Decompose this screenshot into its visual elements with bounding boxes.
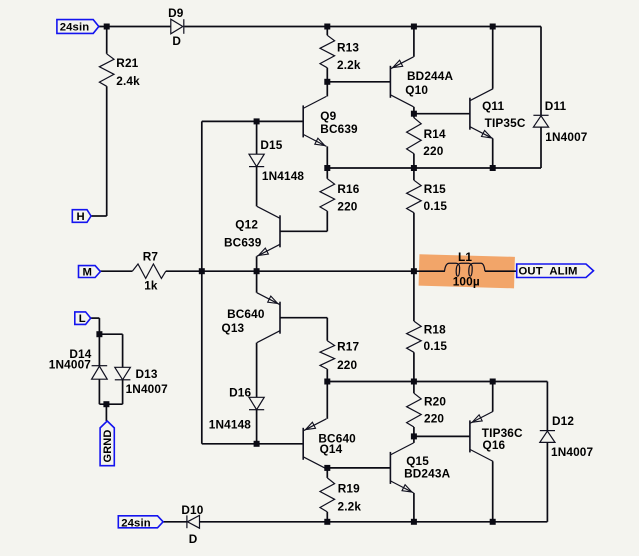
svg-text:1N4148: 1N4148 (209, 418, 252, 432)
svg-text:220: 220 (337, 358, 357, 372)
svg-text:2.2k: 2.2k (338, 500, 362, 514)
svg-text:R7: R7 (143, 250, 159, 264)
svg-text:D15: D15 (260, 138, 282, 152)
svg-text:R19: R19 (338, 481, 360, 495)
svg-text:BC639: BC639 (320, 122, 358, 136)
svg-text:1N4148: 1N4148 (262, 169, 305, 183)
svg-text:220: 220 (337, 199, 357, 213)
svg-text:D10: D10 (181, 503, 203, 517)
svg-text:R14: R14 (424, 127, 446, 141)
svg-text:1k: 1k (144, 279, 158, 293)
svg-text:M: M (83, 267, 93, 279)
svg-text:BC640: BC640 (227, 307, 265, 321)
svg-text:R15: R15 (424, 182, 446, 196)
svg-text:0.15: 0.15 (424, 339, 448, 353)
svg-text:Q9: Q9 (320, 109, 336, 123)
svg-text:TIP35C: TIP35C (485, 116, 526, 130)
svg-text:D: D (189, 532, 198, 546)
svg-text:24sin: 24sin (121, 517, 151, 529)
svg-text:100µ: 100µ (453, 275, 480, 289)
svg-text:220: 220 (424, 412, 444, 426)
svg-text:H: H (77, 211, 85, 223)
svg-text:24sin: 24sin (60, 21, 90, 33)
svg-text:BD243A: BD243A (404, 467, 450, 481)
svg-text:2.4k: 2.4k (116, 74, 140, 88)
svg-text:R18: R18 (424, 323, 446, 337)
svg-text:R13: R13 (337, 41, 359, 55)
svg-text:R16: R16 (337, 182, 359, 196)
svg-text:GRND: GRND (102, 430, 114, 463)
svg-text:OUT ALIM: OUT ALIM (519, 266, 578, 278)
svg-text:Q11: Q11 (482, 99, 504, 113)
svg-text:1N4007: 1N4007 (49, 358, 92, 372)
svg-text:D11: D11 (545, 99, 567, 113)
svg-text:D: D (172, 34, 181, 48)
svg-text:Q12: Q12 (235, 218, 258, 232)
svg-text:BC639: BC639 (224, 236, 262, 250)
svg-text:Q10: Q10 (405, 83, 428, 97)
svg-text:BD244A: BD244A (407, 69, 453, 83)
svg-text:0.15: 0.15 (424, 199, 448, 213)
svg-text:1N4007: 1N4007 (126, 382, 169, 396)
svg-text:D13: D13 (136, 367, 158, 381)
svg-text:1N4007: 1N4007 (551, 445, 594, 459)
svg-text:1N4007: 1N4007 (545, 130, 588, 144)
svg-text:Q16: Q16 (483, 438, 506, 452)
svg-text:220: 220 (423, 144, 443, 158)
svg-text:L: L (79, 313, 86, 325)
svg-text:R20: R20 (424, 395, 446, 409)
svg-text:D16: D16 (229, 386, 251, 400)
svg-text:2.2k: 2.2k (337, 58, 361, 72)
svg-text:R21: R21 (116, 56, 138, 70)
svg-text:D9: D9 (168, 6, 184, 20)
svg-text:R17: R17 (337, 339, 359, 353)
svg-text:L1: L1 (458, 250, 472, 264)
svg-text:D12: D12 (552, 414, 574, 428)
svg-text:Q14: Q14 (320, 442, 343, 456)
svg-text:Q13: Q13 (222, 321, 245, 335)
